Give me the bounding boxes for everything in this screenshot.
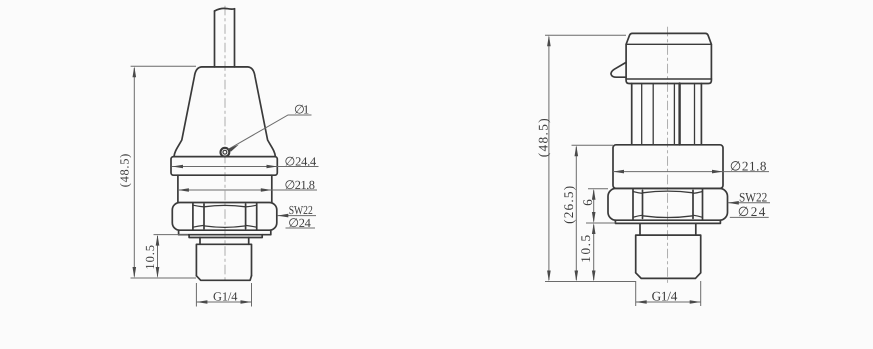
arrowhead dim (48.5) left top xyxy=(133,66,137,77)
arrowhead dim O24.4 right end xyxy=(267,165,278,169)
arrowhead dim O21.8 right end xyxy=(261,188,272,192)
arrowhead dim O21.8 left end xyxy=(178,188,189,192)
wire: right view centerline xyxy=(667,27,669,283)
connector stem lines (right view) xyxy=(631,84,633,145)
svg-text:10.5: 10.5 xyxy=(143,245,157,270)
dim O24.4 left view xyxy=(172,166,319,168)
arrowhead leader O1 xyxy=(229,145,239,152)
dim G1/4 left view : extension + dim line xyxy=(196,283,251,307)
dim 10.5 right view xyxy=(593,225,595,280)
arrowhead leader SW22 left view xyxy=(277,214,288,218)
cone body (left view) xyxy=(174,67,275,157)
svg-text:(48.5): (48.5) xyxy=(535,118,550,157)
vent hole O1 (left view) xyxy=(221,148,230,157)
dim (48.5) left view : dimension line xyxy=(133,68,135,277)
svg-text:(48.5): (48.5) xyxy=(118,154,132,188)
arrowhead dim 10.5 left top xyxy=(156,235,160,246)
svg-text:∅24.4: ∅24.4 xyxy=(285,154,317,168)
dim G1/4 right view xyxy=(636,281,701,306)
svg-text:∅24: ∅24 xyxy=(738,204,766,219)
leader SW22 left view xyxy=(277,215,316,217)
arrowhead dim G1/4 left right end xyxy=(241,300,252,304)
connector head (right view) xyxy=(626,33,711,79)
arrowhead dim (48.5) right top xyxy=(547,35,551,46)
cable gland tab (right view) xyxy=(611,63,626,78)
leader SW22 right view xyxy=(728,202,770,204)
arrowhead dim G1/4 left xyxy=(196,300,207,304)
dim 6 right view xyxy=(588,188,608,190)
arrowhead dim O21.8 right view right end xyxy=(712,170,723,174)
svg-text:G1/4: G1/4 xyxy=(652,288,678,303)
svg-text:10.5: 10.5 xyxy=(578,234,593,262)
washer step 2 (left view) xyxy=(189,235,262,238)
svg-text:∅21.8: ∅21.8 xyxy=(285,178,316,192)
threaded stem G1/4 (right view) xyxy=(636,235,701,273)
flange O24.4 (left view) xyxy=(171,157,277,176)
svg-text:(26.5): (26.5) xyxy=(561,186,576,224)
thread neck (right view) xyxy=(640,223,696,235)
leader O1 left view xyxy=(228,115,311,149)
arrowhead dim 10.5 left bottom xyxy=(156,267,160,278)
arrowhead dim 6 bottom xyxy=(592,212,596,223)
arrowhead dim 6 top xyxy=(592,189,596,200)
svg-text:∅21.8: ∅21.8 xyxy=(730,158,767,173)
arrowhead dim G1/4 right left end xyxy=(636,300,647,304)
hex nut SW22 (left view) xyxy=(172,203,276,231)
dim O21.8 left view xyxy=(178,189,317,191)
hex nut SW22 (right view) xyxy=(608,188,728,220)
cable (left view) xyxy=(215,8,235,11)
arrowhead dim 10.5 right top xyxy=(592,223,596,234)
arrowhead dim (48.5) left bottom xyxy=(133,267,137,278)
svg-text:∅1: ∅1 xyxy=(294,103,309,117)
arrowhead dim O21.8 right view left end xyxy=(613,170,624,174)
underline O24 left view xyxy=(286,227,316,229)
svg-text:SW22: SW22 xyxy=(739,189,767,204)
threaded stem G1/4 (left view) xyxy=(196,244,251,275)
dim (48.5) left view : extension lines xyxy=(131,65,196,67)
dim 10.5 left view xyxy=(154,234,189,236)
wire: left view centerline xyxy=(224,6,226,283)
arrowhead dim (48.5) right bottom xyxy=(547,271,551,282)
arrowhead dim (26.5) top xyxy=(575,145,579,156)
washer step 1 (left view) xyxy=(179,230,271,235)
arrowhead dim G1/4 right right end xyxy=(690,300,701,304)
arrowhead dim O24.4 left end xyxy=(172,165,183,169)
svg-text:∅24: ∅24 xyxy=(288,216,311,230)
thread neck (left view) xyxy=(200,238,249,245)
underline O24 right view xyxy=(730,216,769,218)
washer (right view) xyxy=(615,220,720,223)
svg-text:6: 6 xyxy=(580,199,595,206)
dim O21.8 right view xyxy=(613,171,769,173)
flange O21.8 (right view) xyxy=(613,145,723,189)
arrowhead leader SW22 right view xyxy=(728,201,739,205)
svg-text:G1/4: G1/4 xyxy=(213,290,237,304)
cylinder O21.8 (left view) xyxy=(177,175,179,202)
dim (48.5) right view xyxy=(545,34,626,36)
arrowhead dim (26.5) bottom xyxy=(575,271,579,282)
dim (26.5) right view xyxy=(572,144,614,146)
arrowhead dim 10.5 right bottom xyxy=(592,271,596,282)
